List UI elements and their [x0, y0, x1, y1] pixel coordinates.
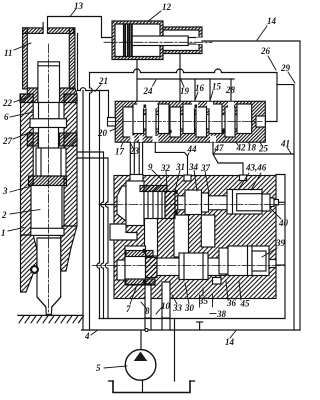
svg-text:19: 19: [180, 86, 190, 96]
leader 27: [13, 132, 31, 139]
bottom bar port gap 1: [130, 136, 134, 143]
hammer right jaw taper: [61, 226, 77, 271]
upper spool centerline: [99, 204, 285, 206]
striker piston 2: [31, 186, 62, 232]
svg-text:43,46: 43,46: [245, 163, 267, 173]
svg-text:6: 6: [4, 112, 9, 122]
ground line: [18, 314, 83, 316]
cylinder 11 top cap left segment: [23, 28, 43, 34]
valve right cap notch: [256, 116, 265, 127]
seal band 6 right: [60, 133, 78, 146]
lower spool left plug 7: [125, 246, 146, 285]
seal band 6 left: [27, 133, 38, 146]
leader 36: [226, 281, 228, 300]
upper spool socket pocket: [117, 186, 126, 221]
left pipe v3 and container left: [97, 91, 100, 319]
pipe from cylinder port a: [77, 152, 104, 319]
leader 7: [130, 288, 136, 304]
centerline of hammer: [48, 44, 50, 313]
tank: [113, 381, 190, 393]
piston rod below collar: [39, 128, 59, 149]
svg-text:31: 31: [175, 162, 185, 172]
svg-text:9: 9: [148, 162, 153, 172]
leader 18: [248, 142, 250, 144]
pipe 14 top run: [202, 41, 300, 330]
manifold pipe to valve ports: [137, 78, 234, 80]
seal dot a: [144, 105, 147, 108]
pump 5: [125, 350, 156, 381]
leader 10: [156, 307, 162, 314]
leader 33: [172, 295, 177, 304]
pipe 13: [42, 23, 44, 28]
hammer left jaw taper: [21, 235, 38, 292]
lower spool rod: [157, 258, 226, 276]
svg-text:12: 12: [162, 2, 172, 12]
leader 20: [110, 129, 116, 132]
upper spool rod: [178, 196, 231, 210]
svg-text:41: 41: [280, 139, 290, 149]
leader 28: [230, 94, 232, 100]
svg-text:21: 21: [98, 76, 108, 86]
capped stub on frame: [199, 322, 201, 330]
channel lower to bottom 1: [145, 284, 151, 318]
bottom bar port gap 4: [210, 136, 216, 142]
channel right of land: [201, 215, 215, 247]
svg-text:40: 40: [278, 218, 289, 228]
leader 15: [211, 91, 214, 99]
top bar port gap 3: [207, 102, 213, 109]
channel left mid: [145, 219, 158, 257]
svg-text:2: 2: [1, 210, 7, 220]
left pipe v2: [89, 73, 91, 88]
channel stub to frame a: [144, 319, 146, 331]
leader 22: [14, 97, 30, 103]
accumulator 12 body right: [163, 27, 202, 54]
leader 44: [188, 153, 190, 156]
seal band 22 left: [20, 88, 38, 103]
svg-text:11: 11: [4, 48, 13, 58]
spool land low 4: [196, 107, 207, 137]
lower plug bottom hatch strip: [126, 279, 155, 285]
leader 29: [288, 72, 295, 83]
upper spool land 34: [185, 190, 202, 215]
piston rod mid: [39, 103, 60, 119]
retaining ball: [31, 266, 38, 273]
seal dot bottom: [175, 211, 178, 215]
piston collar 27: [30, 119, 67, 128]
leader 24: [153, 80, 157, 86]
svg-text:1: 1: [1, 228, 6, 238]
accumulator 12 rod: [132, 36, 188, 46]
leader 25: [260, 142, 262, 145]
spool land high 3: [183, 104, 195, 134]
spring section 32: [144, 192, 165, 219]
upper spool collar 37: [202, 193, 209, 212]
svg-text:14: 14: [225, 337, 235, 347]
svg-text:35: 35: [198, 296, 209, 306]
svg-text:18: 18: [247, 143, 257, 153]
top bar port gap 2: [192, 102, 198, 109]
upper right cylinder 43 46: [227, 190, 262, 215]
pipe 24 from accumulator to valve: [136, 60, 138, 102]
leader 23: [130, 142, 133, 148]
pipe bus 44 below valve: [155, 142, 187, 175]
svg-text:25: 25: [258, 144, 269, 154]
leader 38: [210, 313, 216, 315]
pipe 19 from accumulator to valve: [179, 54, 181, 102]
svg-text:24: 24: [143, 86, 154, 96]
port gap B in block top: [240, 175, 247, 181]
spool land high 5: [237, 104, 252, 134]
leader 32: [166, 171, 167, 188]
seal dot b: [169, 130, 172, 133]
svg-text:4: 4: [84, 331, 90, 341]
spool land low 2: [146, 107, 156, 137]
svg-text:44: 44: [187, 144, 198, 154]
upper spool left plug 9: [126, 181, 144, 226]
piston head: [38, 62, 60, 103]
spool land low 5: [225, 107, 235, 137]
svg-text:26: 26: [260, 46, 271, 56]
junction dot: [145, 328, 148, 331]
leader 43: [238, 173, 249, 190]
lower spool collar 35: [219, 248, 228, 274]
leader 13: [70, 9, 76, 17]
leader 21: [95, 85, 101, 92]
cylinder 11 top cap right segment: [48, 28, 74, 34]
spool land low 3: [170, 107, 181, 137]
leader 11: [14, 43, 31, 50]
accumulator 12 body left: [112, 21, 163, 60]
cylinder 11 left wall upper: [23, 28, 28, 89]
leader 1: [8, 228, 24, 232]
svg-text:5: 5: [96, 363, 101, 373]
pump suction riser: [140, 330, 142, 350]
pipes valve to upper block: [129, 142, 131, 185]
leader 4: [91, 331, 97, 336]
lower spool right notch 39: [269, 260, 276, 268]
lower spool land 30: [179, 253, 208, 280]
tool bit: [37, 238, 61, 314]
leader 14 top: [257, 26, 267, 40]
leader 2: [10, 210, 40, 215]
leader 30: [185, 283, 189, 304]
svg-text:22: 22: [2, 98, 13, 108]
svg-text:14: 14: [267, 16, 277, 26]
hammer body right wall lower: [64, 94, 77, 226]
seal dot lower b: [143, 280, 146, 284]
leader 26: [268, 56, 276, 70]
svg-text:39: 39: [275, 238, 286, 248]
svg-text:13: 13: [74, 1, 84, 11]
leader 5: [104, 366, 127, 368]
leader 34: [194, 170, 197, 191]
gland hatch band: [29, 176, 67, 186]
leader 47: [214, 150, 217, 154]
striker flange: [31, 228, 64, 235]
svg-text:36: 36: [226, 298, 237, 308]
bottom bar port gap 3: [153, 136, 159, 142]
container outline bottom: [99, 318, 285, 320]
seal band 22 right: [60, 88, 78, 103]
bottom frame line 4: [82, 329, 301, 331]
svg-text:38: 38: [216, 309, 227, 319]
leader 42: [236, 142, 238, 145]
spool land high 4: [209, 104, 222, 134]
svg-text:23: 23: [129, 146, 140, 156]
port gap A in block top: [184, 175, 191, 181]
riser port 15: [209, 79, 211, 101]
leader 35: [202, 288, 204, 296]
pipe bus 41 below valve: [213, 142, 294, 154]
left step notch between spools: [110, 224, 137, 240]
riser port 16: [194, 79, 196, 101]
svg-text:3: 3: [2, 186, 8, 196]
channel lower to bottom 2: [162, 282, 170, 318]
seal dot d: [222, 130, 225, 133]
svg-text:27: 27: [2, 136, 13, 146]
svg-text:47: 47: [214, 143, 225, 153]
spool land low 1: [123, 107, 133, 137]
leader 14 bottom: [230, 331, 236, 339]
pipe from cylinder port b: [77, 158, 108, 319]
leader 45: [239, 281, 241, 300]
channel stub to frame b: [161, 319, 163, 331]
svg-text:30: 30: [184, 303, 195, 313]
pipe 26: [90, 72, 134, 74]
lower plug top hatch strip: [126, 251, 153, 257]
svg-text:10: 10: [161, 301, 171, 311]
lower right cylinder 36 45: [228, 246, 269, 276]
svg-text:37: 37: [200, 163, 211, 173]
lower hatch square 8: [146, 258, 158, 278]
valve spool rod band: [123, 115, 252, 130]
leader 37: [205, 171, 209, 193]
seal dot top: [175, 190, 178, 194]
cylinder 11 right wall upper: [69, 28, 75, 89]
top bar port gap 4: [228, 102, 234, 109]
svg-text:20: 20: [97, 128, 108, 138]
svg-text:7: 7: [126, 304, 131, 314]
return pipe to tank: [174, 319, 176, 382]
container right line: [276, 175, 285, 319]
leader 31: [175, 170, 180, 191]
port notch below collar: [213, 278, 222, 285]
seal dot c: [195, 105, 198, 108]
pipe 29: [277, 85, 294, 330]
accumulator 12 centerline: [104, 41, 212, 43]
leader 3: [10, 186, 31, 192]
leader 46: [251, 173, 261, 190]
svg-text:45: 45: [240, 299, 251, 309]
lower spool pocket: [117, 260, 125, 280]
leader 19: [181, 80, 184, 87]
svg-text:16: 16: [195, 83, 205, 93]
leader 8: [141, 302, 146, 308]
ground hatching: [19, 316, 84, 323]
svg-text:15: 15: [212, 82, 222, 92]
svg-text:34: 34: [188, 162, 199, 172]
svg-text:29: 29: [280, 63, 291, 73]
spool land high 2: [159, 104, 170, 134]
plug top hatch strip: [140, 186, 167, 192]
svg-text:28: 28: [225, 85, 236, 95]
svg-text:33: 33: [172, 303, 183, 313]
wall channel outer line: [77, 33, 79, 90]
control valve body: [115, 101, 265, 142]
pump drain: [142, 380, 144, 392]
leader 17: [121, 142, 123, 147]
pipe branch to block top: [213, 154, 243, 176]
leader 41: [287, 147, 291, 154]
bottom bar port gap 2: [139, 136, 142, 143]
valve left port notch 20: [108, 118, 116, 127]
riser port 28: [230, 79, 232, 101]
svg-text:32: 32: [160, 163, 171, 173]
upper spool right parts 40: [262, 194, 270, 211]
top bar port gap 1: [138, 102, 158, 109]
left pipe v1: [82, 91, 84, 331]
leader 6: [10, 112, 33, 117]
pipe B from cylinder to valve port: [78, 90, 81, 92]
hammer body left wall lower: [21, 94, 34, 235]
leader 12: [149, 11, 161, 21]
hatch column 31: [165, 192, 175, 219]
svg-text:8: 8: [145, 306, 150, 316]
valve centerline: [108, 121, 263, 123]
leader 9: [152, 170, 161, 179]
accumulator 12 right port notch: [196, 38, 203, 45]
leader 39: [262, 248, 277, 257]
distributor block body: [114, 176, 276, 299]
leader 16: [196, 92, 199, 99]
leader 40: [271, 209, 281, 219]
port channel from valve into block: [130, 175, 143, 186]
accumulator 12 piston rings: [124, 24, 126, 57]
channel center: [174, 215, 189, 257]
svg-text:42: 42: [236, 143, 247, 153]
svg-text:17: 17: [115, 147, 125, 157]
piston sleeve wide: [36, 148, 66, 176]
lower spool centerline: [92, 265, 285, 267]
seal dot lower a: [143, 249, 146, 253]
spool land high 1: [133, 104, 144, 134]
